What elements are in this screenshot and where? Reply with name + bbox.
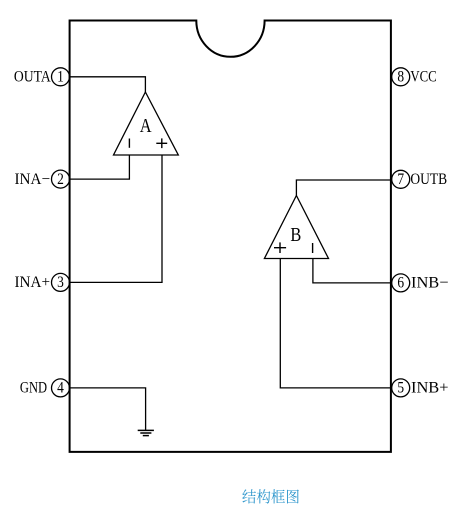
pin 5 INB+ — [392, 379, 449, 397]
svg-text:7: 7 — [397, 171, 404, 188]
svg-text:INA−: INA− — [15, 171, 51, 188]
op-amp A inverting input marker — [128, 139, 130, 148]
svg-text:5: 5 — [397, 380, 404, 397]
wire pin1 OUTA to op-amp A output — [70, 77, 145, 92]
wire pin5 INB+ to op-amp B non-inverting input — [280, 259, 391, 388]
pin 5 circle — [392, 379, 410, 397]
pin 4 circle — [52, 379, 70, 397]
svg-text:4: 4 — [57, 380, 64, 397]
svg-text:6: 6 — [397, 275, 404, 292]
svg-text:VCC: VCC — [410, 69, 436, 86]
svg-text:A: A — [140, 115, 152, 138]
caption 结构框图 (structure block diagram) — [242, 489, 299, 503]
op-amp U1A body — [114, 92, 179, 155]
pin 6 INB- — [392, 274, 449, 292]
svg-text:INB+: INB+ — [411, 380, 449, 397]
pin 7 circle — [392, 170, 410, 188]
svg-text:3: 3 — [57, 274, 64, 291]
svg-text:OUTB: OUTB — [410, 171, 447, 188]
ground — [138, 430, 154, 435]
pin 8 circle — [392, 68, 410, 86]
pin 2 INA- — [15, 170, 70, 188]
pin 4 GND — [20, 379, 70, 397]
pin 8 VCC — [392, 68, 437, 86]
op-amp B inverting input marker — [312, 243, 314, 253]
pin 6 circle — [392, 274, 410, 292]
svg-text:OUTA: OUTA — [14, 69, 51, 86]
wire pin4 GND to ground symbol — [70, 388, 146, 430]
IC package outline with pin-1 notch — [70, 21, 391, 452]
op-amp A non-inverting input marker — [156, 138, 167, 148]
svg-text:1: 1 — [57, 69, 64, 86]
pin 1 OUTA — [14, 68, 70, 86]
pin 1 circle — [52, 68, 70, 86]
svg-text:B: B — [290, 223, 301, 246]
wire pin2 INA- to op-amp A inverting input — [70, 155, 129, 179]
wire pin3 INA+ to op-amp A non-inverting input — [70, 155, 162, 282]
pin 3 circle — [52, 273, 70, 291]
svg-text:INB−: INB− — [411, 275, 449, 292]
svg-text:8: 8 — [397, 69, 404, 86]
op-amp U1B body — [264, 196, 328, 259]
pin 7 OUTB — [392, 170, 447, 188]
pin 3 INA+ — [15, 273, 70, 291]
wire pin7 OUTB to op-amp B output — [296, 180, 391, 196]
svg-text:INA+: INA+ — [15, 274, 51, 291]
svg-text:GND: GND — [20, 380, 47, 397]
wire pin6 INB- to op-amp B inverting input — [313, 259, 391, 283]
pin 2 circle — [52, 170, 70, 188]
svg-text:2: 2 — [57, 171, 64, 188]
op-amp B non-inverting input marker — [274, 242, 286, 253]
